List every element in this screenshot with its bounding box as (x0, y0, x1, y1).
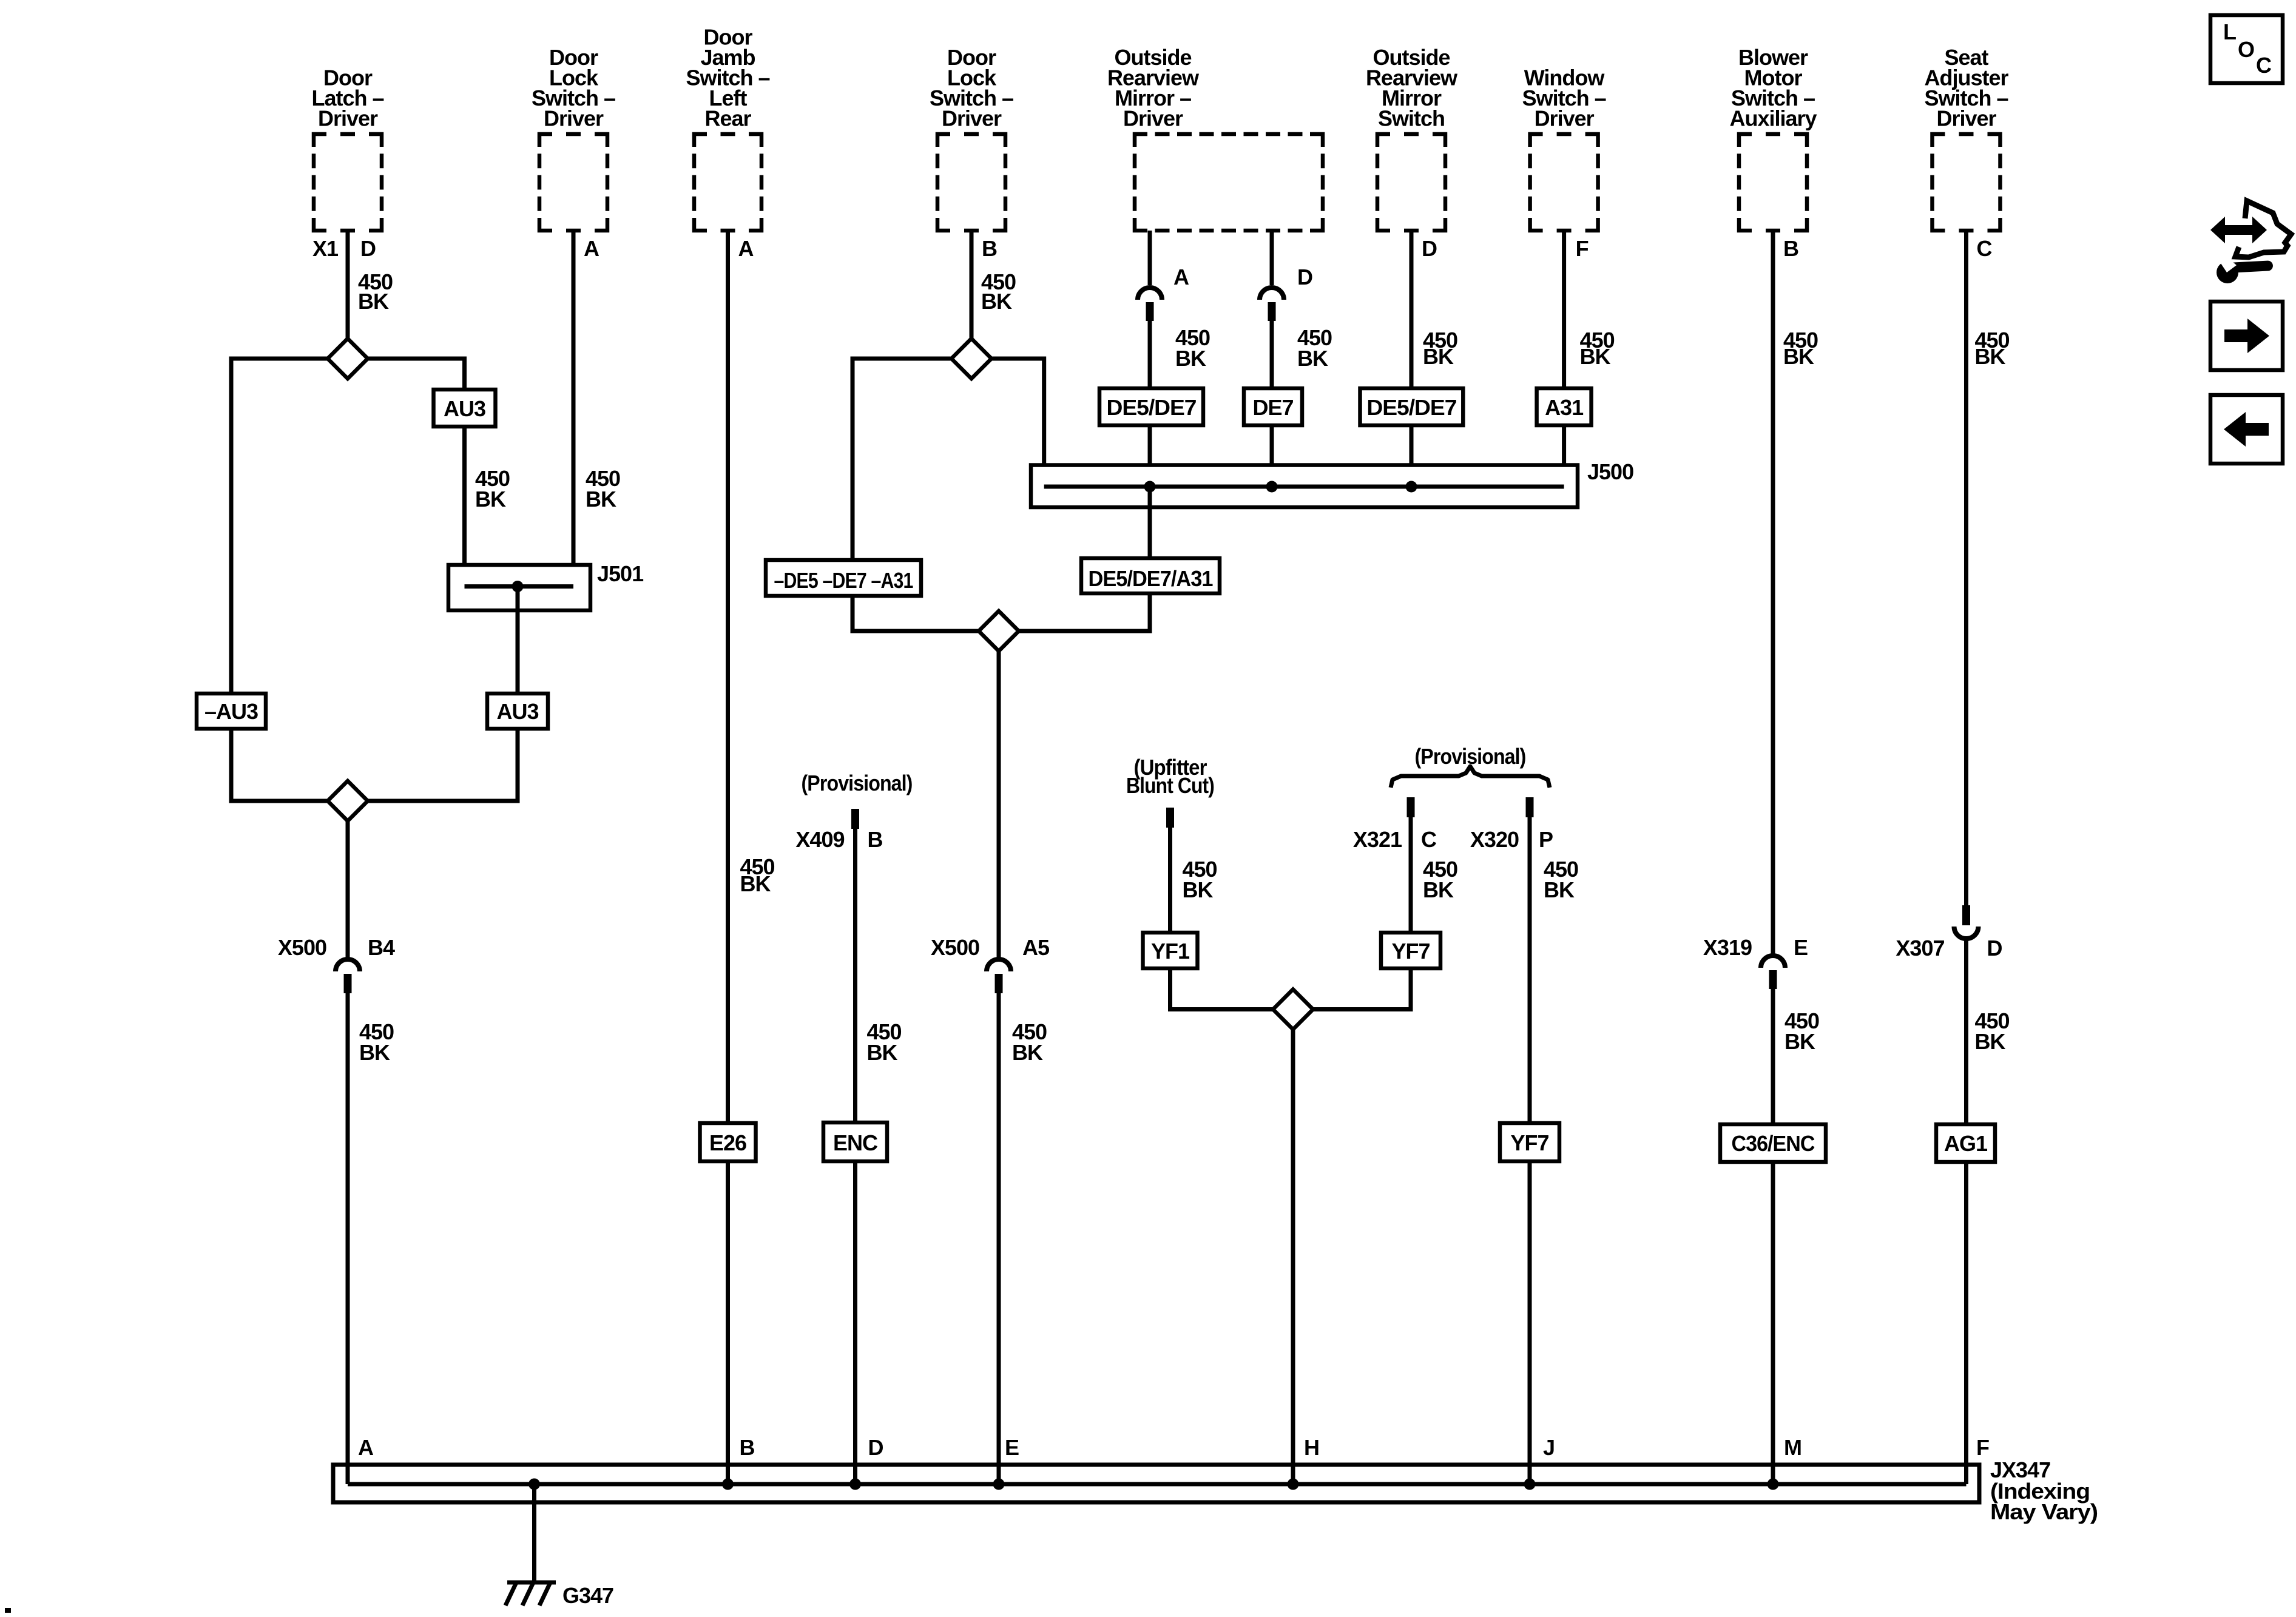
svg-text:C36/ENC: C36/ENC (1732, 1131, 1815, 1156)
svg-text:A: A (358, 1435, 374, 1460)
svg-text:Blunt Cut): Blunt Cut) (1126, 773, 1214, 798)
connector box (dashed): Blower Motor Switch - Auxiliary (1739, 134, 1807, 231)
connector box (dashed): Outside Rearview Mirror Switch (1377, 134, 1445, 231)
fuse block tap AG1 (1936, 1124, 1995, 1162)
svg-text:D: D (1297, 265, 1312, 289)
svg-text:BK: BK (1580, 344, 1611, 369)
wire: X500 B4 down to bus pin A (346, 993, 350, 1484)
inline connector X500 pin A5 (987, 959, 1011, 971)
connector box (dashed): Window Switch - Driver (1530, 134, 1598, 231)
svg-text:H: H (1304, 1435, 1319, 1460)
svg-text:DE5/DE7: DE5/DE7 (1107, 395, 1197, 420)
svg-text:Auxiliary: Auxiliary (1729, 106, 1817, 131)
wire: DE5/DE7 down into J500 (1148, 425, 1152, 487)
svg-text:X319: X319 (1703, 935, 1752, 960)
wire: AG1 down to bus pin F (1964, 1162, 1968, 1484)
svg-text:P: P (1539, 827, 1553, 852)
fuse block tap AU3 (lower) (487, 694, 548, 729)
wire: YF7 down to splice S5 (1313, 968, 1411, 1010)
svg-text:BK: BK (1783, 344, 1814, 369)
fuse block tap A31 (1537, 388, 1592, 425)
svg-text:D: D (868, 1435, 883, 1460)
svg-text:BK: BK (1544, 877, 1575, 902)
svg-text:Switch: Switch (1378, 106, 1445, 131)
legend box: back arrow (2210, 395, 2283, 464)
svg-text:E: E (1005, 1435, 1019, 1460)
svg-text:BK: BK (1423, 877, 1454, 902)
page mark bottom-left (5, 1608, 11, 1613)
junction dot J500 at DE5/DE7 (1144, 481, 1156, 493)
wire: DE5/DE7 switch down into J500 (1410, 425, 1414, 487)
svg-text:AU3: AU3 (496, 699, 538, 724)
svg-text:Driver: Driver (544, 106, 604, 131)
connector box (dashed): Door Latch - Driver (314, 134, 382, 231)
svg-text:DE5/DE7/A31: DE5/DE7/A31 (1089, 566, 1214, 591)
connector box (dashed): Door Lock Switch - Driver middle (937, 134, 1005, 231)
fuse block tap YF1 (1143, 933, 1198, 968)
connector box (dashed): Door Lock Switch - Driver left (539, 134, 607, 231)
svg-text:A5: A5 (1022, 935, 1050, 960)
fuse block tap YF7 (lower) (1500, 1123, 1559, 1161)
svg-text:M: M (1784, 1435, 1801, 1460)
svg-text:C: C (2256, 53, 2272, 78)
fuse block tap DE5/DE7/A31 (1081, 558, 1220, 593)
fuse block tap AU3 (upper) (434, 390, 496, 427)
svg-text:J500: J500 (1587, 459, 1633, 484)
svg-text:X500: X500 (931, 935, 979, 960)
ground junction block JX347 (outer box) (333, 1465, 1979, 1502)
splice S5 (1273, 990, 1313, 1030)
ground symbol G347 (507, 1581, 556, 1585)
icon: vehicle with double arrow and wrench (2235, 201, 2291, 257)
inline connector X307 pin D (inverted) (1962, 905, 1970, 925)
blunt-cut stub X320 (1526, 797, 1534, 817)
svg-text:A: A (738, 236, 754, 261)
wire: X500 A5 down to bus pin E (997, 993, 1001, 1484)
svg-text:X409: X409 (795, 827, 844, 852)
svg-text:B: B (1783, 236, 1798, 261)
wire: X320 P down to bus pin J, 450 BK (1528, 817, 1532, 1484)
fuse block tap DE5/DE7 (mirror driver) (1099, 388, 1203, 425)
svg-text:YF1: YF1 (1151, 939, 1190, 964)
svg-text:Driver: Driver (1936, 106, 1996, 131)
wire: AU3 down into J501, 450 BK (462, 427, 467, 587)
svg-text:BK: BK (1975, 344, 2006, 369)
svg-text:BK: BK (1297, 346, 1328, 371)
legend box LOC (2210, 15, 2283, 83)
svg-text:E: E (1794, 935, 1808, 960)
wire: ORM Switch D down to DE5/DE7, 450 BK (1410, 231, 1414, 388)
svg-text:L: L (2223, 19, 2236, 44)
wire: X319 E down to C36/ENC, 450 BK (1771, 989, 1775, 1124)
wire: X307 D down to AG1, 450 BK (1964, 939, 1968, 1124)
inline connector X319 pin E (1761, 956, 1785, 968)
blunt-cut stub X409 (851, 809, 859, 829)
wire: DE7 down into J500 (1270, 425, 1274, 487)
splice pack J500 (1031, 465, 1578, 508)
svg-text:B: B (868, 827, 883, 852)
svg-text:BK: BK (475, 487, 506, 511)
junction dot J500 at DE5/DE7 switch (1406, 481, 1417, 493)
svg-text:F: F (1976, 1435, 1989, 1460)
wire: J500 down to DE5/DE7/A31 (1148, 487, 1152, 567)
svg-text:BK: BK (1183, 877, 1214, 902)
svg-text:D: D (360, 236, 376, 261)
splice S3 (951, 339, 991, 379)
svg-text:Driver: Driver (1535, 106, 1595, 131)
junction dot for ground lead (528, 1479, 540, 1490)
splice S1 (Door Latch) (328, 339, 368, 379)
svg-text:AG1: AG1 (1944, 1131, 1988, 1156)
svg-text:YF7: YF7 (1510, 1130, 1548, 1155)
svg-text:BK: BK (1175, 346, 1206, 371)
wire: S4 down to X500 A5, 450 BK (997, 651, 1001, 960)
svg-text:A: A (584, 236, 599, 261)
wire: -DE5-DE7-A31 down to splice S4 (853, 596, 979, 631)
wire: mirror pin D with inline connector (1270, 231, 1274, 285)
inline connector arc at mirror pin D (1260, 288, 1284, 300)
svg-text:BK: BK (1975, 1029, 2006, 1054)
svg-text:X321: X321 (1353, 827, 1402, 852)
svg-text:BK: BK (1012, 1040, 1043, 1065)
svg-text:BK: BK (358, 289, 389, 314)
fuse block tap DE5/DE7 (mirror switch) (1360, 388, 1464, 425)
svg-text:BK: BK (867, 1040, 898, 1065)
wire: YF1 down to splice S5 (1170, 968, 1274, 1010)
junction dot in J501 (512, 581, 524, 592)
wire: A31 down into J500 (right end of inner bus) (1562, 425, 1566, 487)
wire: S3 right branch into J500 (991, 359, 1044, 487)
fuse block tap YF7 (upper) (1381, 933, 1440, 968)
svg-text:–AU3: –AU3 (204, 699, 258, 724)
svg-text:X500: X500 (278, 935, 326, 960)
svg-text:B: B (982, 236, 997, 261)
wire: mirror pin A with inline connector (1148, 231, 1152, 285)
svg-text:May Vary): May Vary) (1990, 1499, 2098, 1524)
svg-text:ENC: ENC (833, 1130, 878, 1155)
J500 inner bus wire (1044, 485, 1564, 489)
wire: Seat Adjuster Switch C down, 450 BK (1964, 231, 1968, 906)
splice pack J501 (448, 565, 590, 610)
svg-text:J501: J501 (597, 561, 644, 586)
wire: Door Lock Switch B down to splice S3, 450 BK (970, 231, 974, 339)
svg-text:Driver: Driver (1123, 106, 1183, 131)
wire: DE5/DE7/A31 down to splice S4 (1019, 593, 1150, 631)
svg-text:(Provisional): (Provisional) (802, 771, 913, 795)
svg-text:BK: BK (359, 1040, 390, 1065)
wire: Door Lock Switch A down into J501, 450 BK (572, 231, 576, 587)
wire: mirror D to DE7, 450 BK (1270, 321, 1274, 388)
svg-text:X320: X320 (1470, 827, 1519, 852)
inline connector X500 pin B4 (336, 959, 360, 971)
wire: Door Latch D down to splice S1 (346, 231, 350, 339)
svg-text:AU3: AU3 (444, 396, 485, 421)
svg-text:C: C (1977, 236, 1993, 261)
fuse block tap E26 (700, 1123, 756, 1161)
svg-text:D: D (1422, 236, 1437, 261)
brace over X321 / X320 (1391, 766, 1550, 788)
wire: AU3 lower down to splice S2 (368, 729, 518, 801)
svg-text:YF7: YF7 (1391, 939, 1430, 964)
connector box (dashed): Seat Adjuster Switch - Driver (1933, 134, 2001, 231)
junction dot J500 at DE7 (1266, 481, 1278, 493)
wire: C36/ENC down to bus pin M (1771, 1162, 1775, 1484)
wire: S2 down to X500 B4, 450 BK (346, 821, 350, 960)
junction dots on JX347 bus (722, 1479, 734, 1490)
wire: S5 down to bus pin H (1291, 1030, 1295, 1485)
wire: mirror A to DE5/DE7, 450 BK (1148, 321, 1152, 388)
svg-text:D: D (1987, 936, 2002, 960)
svg-text:F: F (1576, 236, 1589, 261)
svg-text:–DE5 –DE7 –A31: –DE5 –DE7 –A31 (774, 568, 914, 593)
wire: S1 right branch to AU3 (368, 359, 465, 390)
fuse block tap -DE5 -DE7 -A31 (766, 560, 921, 596)
blunt-cut stub X321 (1407, 797, 1415, 817)
svg-text:BK: BK (1423, 344, 1454, 369)
connector box (dashed): Door Jamb Switch - Left Rear (694, 134, 761, 231)
wire: upfitter down to YF1, 450 BK (1168, 828, 1172, 933)
svg-text:DE5/DE7: DE5/DE7 (1366, 395, 1456, 420)
svg-text:Driver: Driver (942, 106, 1002, 131)
legend box: forward arrow (2210, 302, 2283, 370)
inline connector arc at mirror pin A (1138, 288, 1162, 300)
svg-text:DE7: DE7 (1252, 395, 1293, 420)
svg-text:X1: X1 (312, 236, 339, 261)
svg-text:B: B (740, 1435, 755, 1460)
svg-text:BK: BK (586, 487, 616, 511)
wire: bus down to ground G347 (532, 1484, 536, 1582)
wire: S1 left branch to -AU3 (231, 359, 328, 694)
fuse block tap DE7 (1244, 388, 1302, 425)
wire: Window Switch F down to A31, 450 BK (1562, 231, 1566, 388)
wire: S3 left branch to -DE5-DE7-A31 (853, 359, 951, 569)
svg-text:O: O (2238, 37, 2254, 62)
splice S2 (328, 781, 368, 821)
svg-text:E26: E26 (709, 1130, 746, 1155)
svg-text:Rear: Rear (704, 106, 751, 131)
fuse block tap ENC (823, 1122, 887, 1161)
wire: Door Jamb Switch A down to bus pin B, 450 BK (726, 231, 730, 1484)
svg-text:A31: A31 (1545, 395, 1584, 420)
connector box (dashed): Outside Rearview Mirror - Driver (1135, 134, 1323, 231)
splice S4 (979, 611, 1019, 651)
svg-text:X307: X307 (1896, 936, 1944, 960)
wire: J501 down to AU3 (lower) (516, 587, 520, 694)
wire: X321 C down to YF7, 450 BK (1409, 817, 1413, 933)
svg-text:BK: BK (1784, 1029, 1815, 1054)
svg-text:C: C (1421, 827, 1437, 852)
wire: X409 B down to bus pin D, 450 BK (853, 829, 857, 1484)
svg-text:B4: B4 (368, 935, 395, 960)
svg-text:BK: BK (740, 871, 771, 896)
wire: -AU3 down to splice S2 (231, 729, 328, 801)
fuse block tap C36/ENC (1720, 1124, 1826, 1162)
svg-text:A: A (1173, 265, 1189, 289)
svg-text:Driver: Driver (318, 106, 378, 131)
JX347 inner bus wire (348, 1482, 1967, 1487)
blunt-cut stub upfitter (1166, 808, 1174, 828)
svg-text:J: J (1543, 1435, 1555, 1460)
svg-text:BK: BK (981, 289, 1012, 314)
svg-text:G347: G347 (562, 1583, 613, 1608)
wire: Blower Motor Switch B down, 450 BK (1771, 231, 1775, 956)
fuse block tap -AU3 (197, 694, 266, 729)
